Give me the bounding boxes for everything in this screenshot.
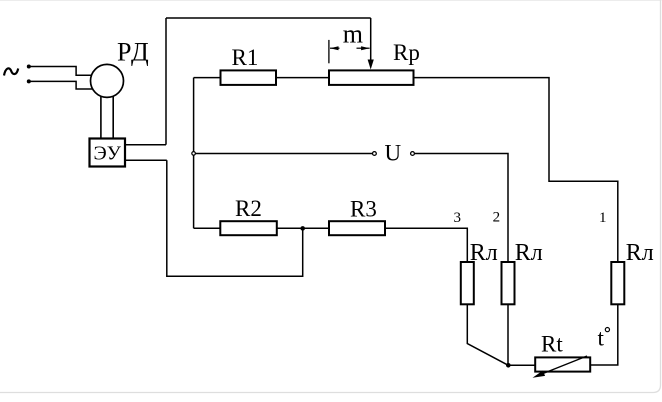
wire R2 to R3: [277, 227, 329, 229]
wire Rt to net 1: [590, 304, 618, 365]
svg-text:ЭУ: ЭУ: [94, 143, 122, 165]
wire down-left feedback loop: [167, 160, 303, 276]
svg-text:Rл: Rл: [626, 240, 654, 266]
wire vertical up left of top loop: [165, 18, 167, 145]
resistor R3: [329, 221, 385, 235]
svg-text:Rл: Rл: [470, 240, 498, 266]
variable arrow through Rt: [538, 356, 587, 376]
svg-text:3: 3: [454, 210, 462, 226]
amplifier ЭУ box: [90, 139, 126, 167]
wire AC top to motor: [29, 67, 92, 76]
lead resistor Rл line 3: [461, 262, 474, 304]
svg-text:m: m: [343, 19, 363, 48]
junction dot at R2-R3 node: [300, 226, 305, 231]
wire net 2 below resistor: [507, 304, 509, 365]
AC source symbol ~: [4, 68, 18, 75]
U right terminal circle: [411, 152, 415, 156]
dimension arrow right: [357, 47, 370, 49]
lead resistor Rл line 2: [502, 262, 515, 304]
wire U row right to net 2: [414, 154, 508, 263]
svg-text:R1: R1: [232, 45, 259, 70]
svg-text:2: 2: [493, 210, 501, 226]
dimension arrow left: [330, 47, 340, 49]
resistor R1: [221, 70, 277, 85]
terminal dot top: [27, 65, 31, 69]
potentiometer Rp: [329, 70, 414, 85]
terminal dot bottom: [27, 79, 31, 83]
dimension tick for m: [328, 40, 330, 63]
wire R3 to net 3: [385, 228, 467, 262]
wire R1 to Rp: [276, 77, 329, 79]
wire ЭУ lower output: [125, 159, 167, 161]
svg-text:U: U: [385, 140, 402, 165]
svg-text:Rл: Rл: [515, 240, 543, 266]
wire U row left: [194, 153, 373, 155]
svg-text:РД: РД: [117, 38, 150, 67]
node circle on left bridge vertical: [192, 152, 196, 156]
svg-text:Rt: Rt: [541, 332, 563, 357]
junction dot at thermometer node: [506, 363, 511, 368]
wire Rp to net 1: [414, 78, 618, 262]
wire junction to Rt: [508, 364, 535, 366]
svg-text:t: t: [598, 326, 605, 351]
wire wiper drop: [370, 18, 372, 61]
svg-text:1: 1: [599, 210, 607, 226]
U left terminal circle: [373, 152, 377, 156]
svg-text:Rp: Rp: [393, 40, 420, 65]
svg-text:R2: R2: [235, 196, 262, 221]
thermistor Rt: [535, 357, 590, 371]
lead resistor Rл line 1: [611, 262, 624, 304]
wire ЭУ upper output to top loop: [125, 144, 166, 146]
svg-text:R3: R3: [350, 197, 377, 222]
mechanical shaft link motor to amplifier: [101, 97, 113, 139]
wire net 3 below resistor: [467, 304, 508, 365]
wire to R1: [194, 77, 221, 79]
motor РД circle: [91, 64, 124, 97]
resistor R2: [220, 221, 276, 235]
wire top loop horizontal: [166, 17, 371, 19]
wire left bridge vertical: [193, 78, 195, 229]
wire AC bottom to motor: [29, 81, 93, 89]
wiper arrowhead onto Rp: [368, 60, 374, 70]
wire to R2: [194, 227, 221, 229]
